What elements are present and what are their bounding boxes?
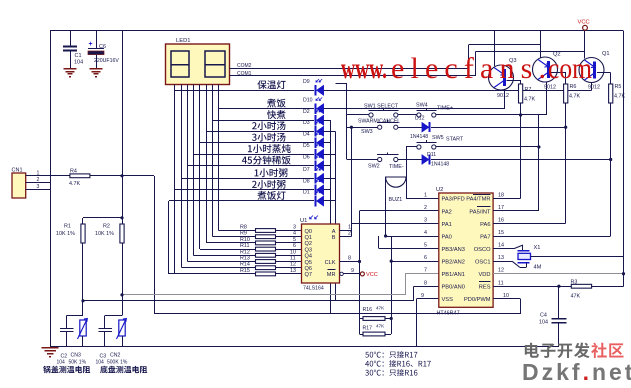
svg-text:9: 9 <box>351 268 354 274</box>
capacitor C6 220UF/16V electrolytic <box>96 31 98 49</box>
svg-text:13: 13 <box>290 268 296 274</box>
svg-text:D5: D5 <box>303 143 310 149</box>
ground bus (bottom) <box>50 346 559 348</box>
svg-text:R15: R15 <box>240 268 250 274</box>
resistor R16 47K <box>360 318 364 320</box>
svg-text:11: 11 <box>290 256 296 262</box>
wire - A/B riser to PA1 net <box>351 127 353 237</box>
svg-text:D9: D9 <box>303 79 310 85</box>
svg-text:3: 3 <box>293 225 296 231</box>
svg-text:104: 104 <box>74 60 83 66</box>
wire - Q3 emitter riser <box>494 31 496 66</box>
resistor R7 4.7K <box>519 84 523 103</box>
VCC power rail (top horizontal wire) <box>50 30 624 32</box>
svg-text:Dzkf.net: Dzkf.net <box>522 359 631 383</box>
ground - below C1 <box>64 68 77 70</box>
svg-text:PA1: PA1 <box>442 222 452 228</box>
svg-text:1: 1 <box>348 225 351 231</box>
svg-text:15: 15 <box>498 230 504 236</box>
svg-text:com: com <box>548 52 592 85</box>
svg-text:2: 2 <box>348 231 351 237</box>
wire - U2 pin 11 RES row <box>493 286 571 288</box>
transistor Q3 9012 <box>489 65 514 90</box>
wire - indicator row 45分钟稀饭 <box>188 165 315 167</box>
svg-text:A: A <box>332 229 336 235</box>
wire - U2 pin 2 PA2 <box>360 210 439 212</box>
wire - PB1/AN1 gray riser <box>405 274 407 295</box>
pushbutton SW2 TIME- <box>347 159 378 161</box>
svg-text:4.7K: 4.7K <box>524 97 535 103</box>
resistor R1 10K 1% <box>82 218 84 224</box>
wire - indicator row 1小时粥 <box>181 178 314 180</box>
digit 1 of LED1 <box>171 51 189 77</box>
svg-text:U1: U1 <box>300 218 307 224</box>
wire - switch common vertical x=347 <box>346 84 348 160</box>
LED D2 快煮 <box>315 115 317 126</box>
svg-text:Q2: Q2 <box>305 241 312 247</box>
resistor R4 4.7K <box>70 174 90 178</box>
svg-text:C6: C6 <box>99 44 106 50</box>
diode D11 1N4148 <box>398 159 422 161</box>
thermistor CN3 50K <box>80 320 86 336</box>
svg-text:R4: R4 <box>70 169 77 175</box>
wire - indicator row 1小时蒸炖 <box>194 154 315 156</box>
svg-text:47K: 47K <box>571 294 581 300</box>
wire - U2 pin 14 OSCO to crystal <box>493 248 514 250</box>
svg-text:elecfans.: elecfans. <box>391 52 546 85</box>
wire - BUZ1 right lead / SW5 riser to PA3 row <box>406 147 408 198</box>
svg-text:104: 104 <box>96 360 105 366</box>
wire - U2 pin 18 PA4/TMR to R7 <box>493 198 520 200</box>
resistor R13 <box>256 260 276 264</box>
svg-text:3: 3 <box>424 218 427 224</box>
resistor R5 4.7K <box>609 84 613 103</box>
svg-text:PD0/PWM: PD0/PWM <box>464 297 491 303</box>
svg-text:PA0: PA0 <box>442 234 452 240</box>
svg-text:R17: R17 <box>363 326 373 332</box>
wire - PB2 riser down to R16/R17 <box>391 236 393 334</box>
svg-text:D2: D2 <box>303 109 310 115</box>
resistor R6 4.7K <box>564 84 568 103</box>
svg-text:Q5: Q5 <box>305 260 312 266</box>
svg-text:500K 1%: 500K 1% <box>107 360 128 366</box>
wire - R4 output to node and PWM riser <box>90 175 154 177</box>
svg-text:CN2: CN2 <box>110 353 120 359</box>
wire - U2 pin 1 PA3/PFD <box>406 198 439 200</box>
wire - indicator row 煮饭灯 <box>169 200 314 202</box>
wire - U2 pin 6 PB2/AN2 <box>392 261 439 263</box>
svg-text:R16: R16 <box>363 307 373 313</box>
LED D5 1小时蒸炖 <box>315 149 317 160</box>
note text - thermistor resistor options <box>365 352 369 358</box>
svg-text:VDD: VDD <box>478 272 490 278</box>
svg-text:VCC: VCC <box>366 272 378 278</box>
wire - AN0 bus from R1 node to PB0 riser <box>83 300 413 302</box>
svg-text:D4: D4 <box>303 132 310 138</box>
svg-text:www.: www. <box>341 52 387 85</box>
resistor R8 <box>256 229 276 233</box>
wire COM2 from LED1 to transistor block <box>230 68 469 70</box>
svg-text:R7: R7 <box>525 87 532 93</box>
svg-text:VCC: VCC <box>578 20 590 26</box>
svg-text:104: 104 <box>57 360 66 366</box>
LED D6 45分钟稀饭 <box>315 160 317 171</box>
wire - nested loop COM1 riser <box>475 51 477 75</box>
wire - extra segment line for indicator row 10 <box>168 201 170 274</box>
wire - D12 row to R6 riser <box>431 127 566 129</box>
svg-text:D12: D12 <box>415 116 425 122</box>
svg-text:R14: R14 <box>240 262 250 268</box>
svg-text:+: + <box>89 41 93 48</box>
svg-text:D6: D6 <box>303 154 310 160</box>
svg-text:PB0/AN0: PB0/AN0 <box>442 285 465 291</box>
resistor R9 <box>256 235 276 239</box>
wire - U1 B pin 2 <box>340 236 352 238</box>
wire - LED1 segment lines down to resistor staircase <box>174 85 176 274</box>
svg-text:5: 5 <box>293 237 296 243</box>
wire - U1 CLK pin 8 <box>340 261 360 263</box>
svg-text:VSS: VSS <box>442 297 454 303</box>
buzzer BUZ1 <box>386 177 406 187</box>
crystal X1 4M <box>518 250 530 252</box>
svg-text:OSCO: OSCO <box>474 247 491 253</box>
wire - U2 pin 10 PD0/PWM <box>493 298 520 300</box>
svg-text:Q0: Q0 <box>305 229 312 235</box>
wire - stub at top of switch common <box>336 83 348 85</box>
svg-text:1: 1 <box>37 170 40 176</box>
svg-text:10: 10 <box>503 293 509 299</box>
svg-text:R9: R9 <box>240 231 247 237</box>
transistor Q2 9012 <box>533 57 558 82</box>
wire - TIME- row to R5 riser <box>431 159 611 161</box>
svg-text:9: 9 <box>421 293 424 299</box>
svg-text:2: 2 <box>424 205 427 211</box>
wire - U1 A pin 1 <box>340 230 352 232</box>
svg-text:Q7: Q7 <box>305 272 312 278</box>
wire - U2 pin 13 OSC1 to crystal <box>493 261 512 263</box>
svg-text:D7: D7 <box>303 167 310 173</box>
pushbutton SW3 (SWARM/CANCEL) <box>347 127 378 129</box>
resistor R17 47K <box>360 334 364 336</box>
svg-text:104: 104 <box>539 320 548 326</box>
svg-text:X1: X1 <box>534 245 541 251</box>
wire - nested loop top 1 <box>468 44 540 46</box>
svg-text:OSC1: OSC1 <box>475 259 491 265</box>
svg-text:R5: R5 <box>615 84 622 90</box>
resistor R10 <box>256 241 276 245</box>
wire - R1 top branch <box>83 217 122 219</box>
wire - indicator row 2小时汤 <box>206 131 314 133</box>
svg-text:9012: 9012 <box>544 85 556 91</box>
wire - U2 pin 9 VSS <box>417 298 439 300</box>
svg-text:6: 6 <box>293 243 296 249</box>
wire - left vertical rail from VCC rail down to ground bus <box>50 31 52 347</box>
LED D3 2小时汤 <box>315 126 317 137</box>
svg-text:10K 1%: 10K 1% <box>56 231 75 237</box>
svg-text:C4: C4 <box>540 313 547 319</box>
svg-text:PB1/AN1: PB1/AN1 <box>442 272 465 278</box>
svg-text:COM1: COM1 <box>237 71 252 77</box>
pushbutton SW5 START <box>406 146 417 148</box>
capacitor C3 104 <box>104 315 106 328</box>
wire - AN1 gray bus from R2 node to PB1 riser <box>122 294 405 296</box>
wire - U2 pin 8 PB0/AN0 <box>413 286 439 288</box>
svg-text:8: 8 <box>348 256 351 262</box>
wire - CN1 pin 3 <box>26 189 50 191</box>
svg-text:PA5/INT: PA5/INT <box>469 209 491 215</box>
svg-text:SW3: SW3 <box>361 129 373 135</box>
svg-text:R1: R1 <box>64 224 71 230</box>
wire - Q3 collector down to row2 <box>504 90 506 109</box>
svg-text:12: 12 <box>498 268 504 274</box>
wire - U2 pin 7 PB1/AN1 <box>405 273 439 275</box>
svg-text:Q4: Q4 <box>305 254 312 260</box>
svg-text:6: 6 <box>424 255 427 261</box>
wire - riser x=154 down to PWM bus <box>154 176 156 314</box>
svg-text:PA2: PA2 <box>442 209 452 215</box>
svg-text:COM2: COM2 <box>237 63 252 69</box>
svg-text:D1: D1 <box>303 190 310 196</box>
svg-text:SW5: SW5 <box>432 135 444 141</box>
svg-text:R2: R2 <box>103 224 110 230</box>
svg-text:R13: R13 <box>240 256 250 262</box>
resistor R14 <box>256 266 276 270</box>
capacitor C1 104 (decoupling) <box>70 31 72 46</box>
svg-text:50K 1%: 50K 1% <box>69 360 87 366</box>
svg-text:10K 1%: 10K 1% <box>95 231 114 237</box>
svg-text:SW1 SELECT: SW1 SELECT <box>364 104 399 110</box>
wire - indicator row 2小时粥 <box>174 189 314 191</box>
svg-text:SW4: SW4 <box>416 103 428 109</box>
watermark site name 电子开发社区 <box>525 343 539 358</box>
svg-text:11: 11 <box>498 280 504 286</box>
svg-text:PA3/PFD: PA3/PFD <box>442 197 465 203</box>
svg-text:U2: U2 <box>436 187 443 193</box>
svg-text:47K: 47K <box>376 306 385 311</box>
wire - Q3 base to R7 <box>507 80 521 82</box>
capacitor C4 104 <box>558 286 560 318</box>
LED D4 3小时汤 <box>315 138 317 149</box>
pushbutton SW4 TIME+ <box>398 114 417 116</box>
svg-text:CLK: CLK <box>325 260 336 266</box>
svg-text:4: 4 <box>293 231 296 237</box>
svg-text:8: 8 <box>424 280 427 286</box>
svg-text:9012: 9012 <box>588 85 600 91</box>
svg-text:74LS164: 74LS164 <box>303 286 324 292</box>
thermistor CN2 500K <box>119 320 125 336</box>
wire - Q2 collector down to TIME+ row <box>546 82 548 116</box>
wire - Q2 base to R6 <box>551 72 566 74</box>
wire - U1 MR pin 9 to VCC <box>340 272 343 275</box>
U2 body <box>439 193 493 307</box>
wire - VSS riser down to ground bus <box>416 299 418 347</box>
svg-text:CN3: CN3 <box>71 353 81 359</box>
wire - indicator common bus vertical x=330.5 <box>330 120 332 314</box>
wire COM1 from LED1 to transistor block <box>230 75 476 77</box>
pushbutton SW1 SELECT <box>347 114 369 116</box>
wire - PB3 riser <box>378 236 380 249</box>
svg-text:14: 14 <box>498 243 504 249</box>
svg-text:1N4148: 1N4148 <box>431 162 449 168</box>
svg-text:10: 10 <box>290 249 296 255</box>
wire - PA2 riser down through CLK to R16/R17 <box>359 211 361 334</box>
svg-text:R11: R11 <box>240 243 250 249</box>
wire - Q2 emitter riser <box>540 31 542 58</box>
wire - indicator row 3小时汤 <box>200 142 314 144</box>
svg-text:1N4148: 1N4148 <box>410 134 428 140</box>
wire - U2 pin 4 PA0 <box>386 236 439 238</box>
svg-text:PB2/AN2: PB2/AN2 <box>442 259 465 265</box>
wire - U2 pin 15 PA7 to R5 riser <box>493 236 611 238</box>
svg-text:B: B <box>332 235 336 241</box>
wire - right vertical rail x=623.5 <box>623 31 625 286</box>
wire - thermistor branch 1 <box>67 315 83 317</box>
svg-text:9012: 9012 <box>497 93 509 99</box>
svg-text:4M: 4M <box>534 265 542 271</box>
svg-text:PA4/TMR: PA4/TMR <box>466 197 490 203</box>
svg-text:2: 2 <box>37 177 40 183</box>
wire - Q1 collector down to indicator row 1 <box>591 82 593 90</box>
svg-text:START: START <box>446 137 464 143</box>
wire - START row to pin17 riser <box>436 146 539 148</box>
svg-text:PA6: PA6 <box>480 222 490 228</box>
wire - PB0/AN0 riser <box>413 286 415 301</box>
wire - nested loop top 2 <box>476 51 585 53</box>
ground symbol bottom-left <box>42 347 59 349</box>
LED D1 煮饭灯 <box>315 196 317 207</box>
svg-text:TIME+: TIME+ <box>437 106 453 112</box>
svg-text:Q6: Q6 <box>305 266 312 272</box>
svg-text:R3: R3 <box>571 280 578 286</box>
resistor R12 <box>256 253 276 257</box>
diode D12 1N4148 <box>398 127 422 129</box>
wire - BUZ1 left lead down to PA0 row <box>385 177 387 236</box>
wire - U2 pin 3 PA1 <box>351 223 438 225</box>
svg-text:220UF16V: 220UF16V <box>94 58 119 64</box>
resistor R11 <box>256 247 276 251</box>
svg-text:4.7K: 4.7K <box>569 94 580 100</box>
LED D8 2小时粥 <box>315 185 317 196</box>
svg-text:12: 12 <box>290 262 296 268</box>
wire - crystal case to right rail <box>531 256 624 258</box>
svg-text:C1: C1 <box>75 53 82 59</box>
transistor Q1 9012 <box>579 58 604 83</box>
wire - vertical rail x=122 from VCC rail down to R2 and thermistor CN2 <box>122 31 124 224</box>
VCC terminal at U1 MR <box>360 272 364 276</box>
wire - PWM bus y=313.9 <box>154 313 521 315</box>
LED D9 保温灯 <box>315 85 317 96</box>
svg-text:LED1: LED1 <box>176 38 191 44</box>
resistor R15 <box>256 272 276 276</box>
svg-text:MR: MR <box>327 272 336 278</box>
svg-text:D10: D10 <box>303 97 313 103</box>
svg-text:Q3: Q3 <box>305 247 312 253</box>
svg-text:RES: RES <box>479 285 491 291</box>
svg-text:R10: R10 <box>240 237 250 243</box>
svg-text:D3: D3 <box>303 120 310 126</box>
LED D7 1小时粥 <box>315 173 317 184</box>
svg-text:16: 16 <box>498 218 504 224</box>
resistor R2 10K 1% <box>120 224 124 243</box>
svg-text:4: 4 <box>424 230 427 236</box>
svg-text:1: 1 <box>424 192 427 198</box>
svg-text:R8: R8 <box>240 225 247 231</box>
wire - indicator common bus vertical x=335.5 <box>335 131 337 300</box>
wire - CN1 pin 1 <box>26 175 70 177</box>
svg-text:18: 18 <box>498 192 504 198</box>
svg-text:SWARM/CANCEL: SWARM/CANCEL <box>358 119 400 125</box>
svg-text:4.7K: 4.7K <box>69 181 80 187</box>
svg-text:SW2: SW2 <box>368 164 380 170</box>
wire - U2 pin 17 PA5/INT riser x=538.9 <box>493 210 539 212</box>
svg-text:17: 17 <box>498 205 504 211</box>
wire - PA1 riser from SW3 row <box>350 126 353 129</box>
LED D10 煮饭 <box>315 103 317 114</box>
wire - nested loop COM2 riser <box>468 45 470 69</box>
svg-text:3: 3 <box>37 184 40 190</box>
LED D1 emission arrows near U1 <box>310 216 313 219</box>
wire - thermistor branch 2 <box>105 315 122 317</box>
svg-text:D11: D11 <box>427 152 436 158</box>
resistor R3 47K <box>571 284 591 288</box>
svg-text:13: 13 <box>498 255 504 261</box>
svg-text:7: 7 <box>424 268 427 274</box>
wire - U2 pin 16 PA6 to R6 riser <box>493 223 566 225</box>
svg-text:Q1: Q1 <box>602 51 610 57</box>
svg-text:R12: R12 <box>240 249 250 255</box>
ground - below C6 <box>90 68 103 70</box>
svg-text:TIME-: TIME- <box>389 164 404 170</box>
wire - indicator row 保温灯 <box>174 90 314 92</box>
wire - TIME+ row to Q2 collector and risers <box>436 114 546 116</box>
wire - U2 pin 5 PB3/AN3 <box>379 248 439 250</box>
digit 2 of LED1 <box>205 51 225 77</box>
wire - U2 pin 12 VDD gray wire to right rail <box>493 273 623 275</box>
svg-text:5: 5 <box>424 243 427 249</box>
svg-text:4.7K: 4.7K <box>614 94 625 100</box>
wire - indicator row 煮饭 <box>219 108 315 110</box>
capacitor C2 104 <box>66 315 68 328</box>
svg-text:D8: D8 <box>303 179 310 185</box>
svg-text:PB3/AN3: PB3/AN3 <box>442 247 465 253</box>
wire - CN1 pin 2 <box>26 182 50 184</box>
svg-text:47K: 47K <box>376 324 385 329</box>
wire - Q1 emitter riser <box>584 31 586 59</box>
svg-text:BUZ1: BUZ1 <box>389 197 403 203</box>
svg-text:Q1: Q1 <box>305 235 312 241</box>
wire - resistor rows R8-R15 to U1 pins <box>252 230 302 232</box>
wire - Q1 base to R5 <box>597 72 611 74</box>
svg-text:PA7: PA7 <box>480 234 490 240</box>
wire - indicator row 快煮 <box>212 120 314 122</box>
